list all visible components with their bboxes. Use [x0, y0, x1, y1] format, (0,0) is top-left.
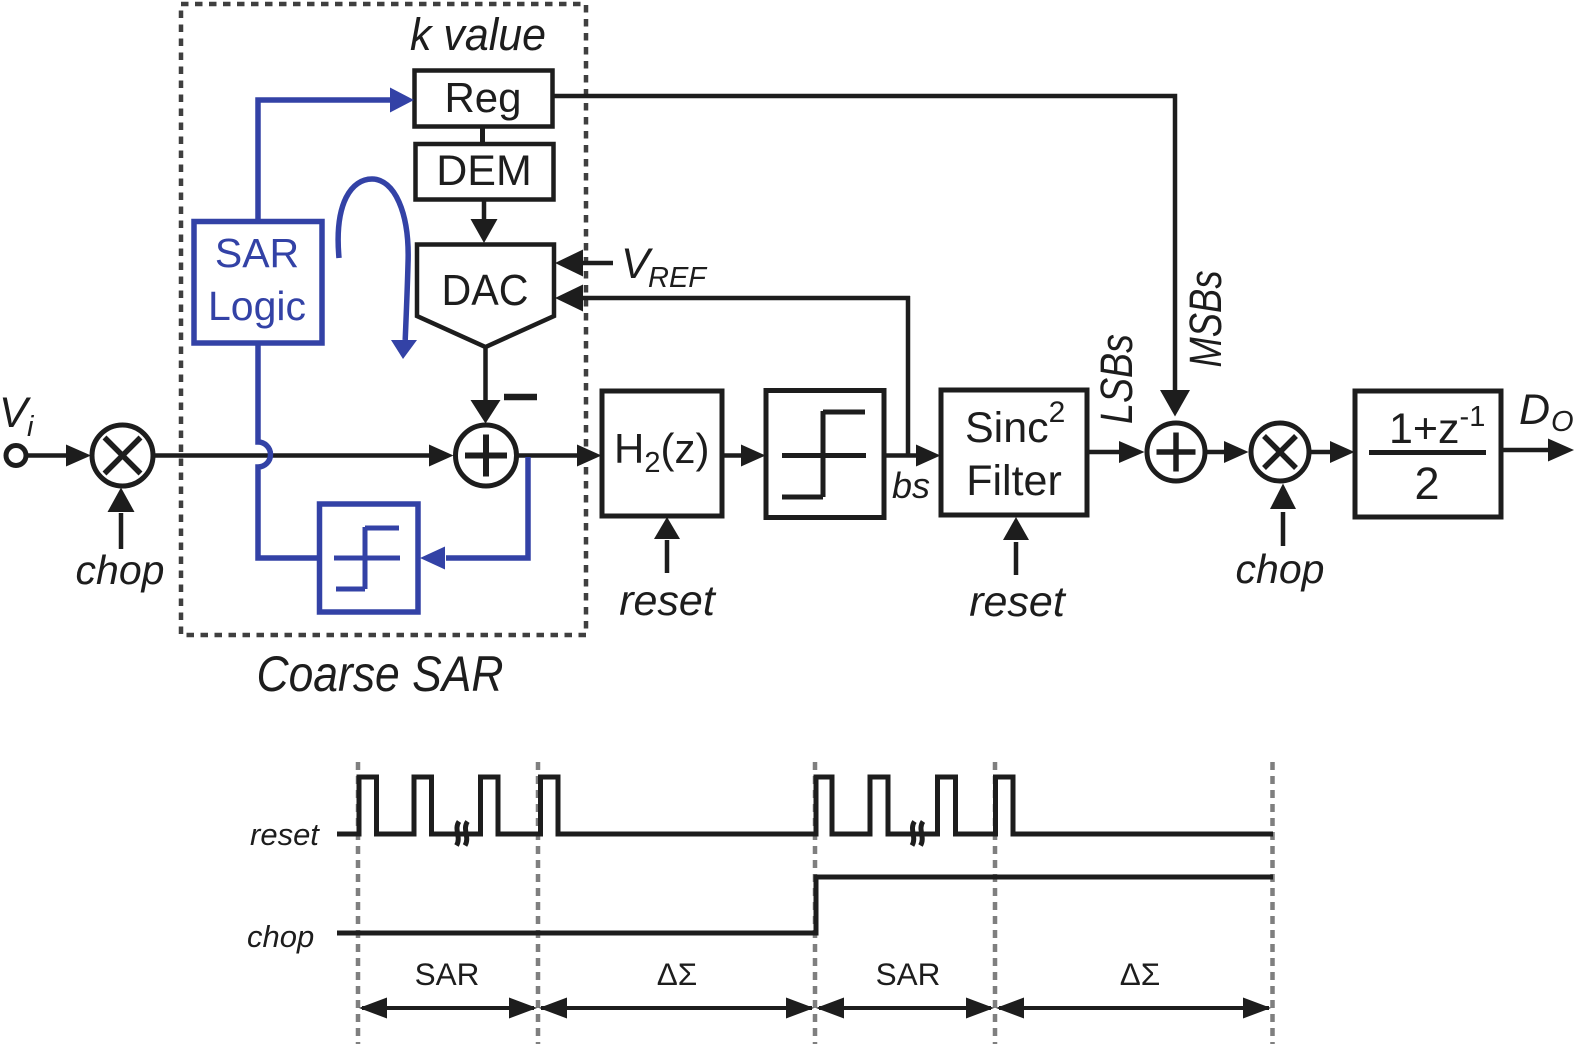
interval arrow SAR 2 [816, 998, 994, 1019]
output wire Do [1501, 439, 1574, 462]
multiplier chopper 1 [92, 425, 153, 486]
svg-text:D: D [1519, 386, 1550, 434]
chop input arrow 1 [108, 488, 135, 550]
waveform break squiggle 1 [457, 822, 468, 846]
wire bs feedback to DAC [555, 285, 910, 456]
summing junction 1 [456, 425, 517, 486]
blue feedback wire summer1 to comparator [420, 457, 528, 570]
block Sinc2 Filter [941, 390, 1087, 515]
dashed box Coarse SAR boundary [181, 4, 586, 635]
svg-text:Coarse SAR: Coarse SAR [257, 646, 504, 702]
svg-text:DAC: DAC [442, 266, 529, 315]
svg-text:chop: chop [76, 547, 165, 593]
svg-text:ΔΣ: ΔΣ [1120, 956, 1161, 992]
quantizer block [766, 391, 884, 518]
interval arrow SAR 1 [359, 998, 537, 1019]
svg-text:MSBs: MSBs [1180, 271, 1231, 368]
wire DEM to DAC [471, 199, 498, 243]
wire chopper2 to output block [1311, 441, 1355, 463]
svg-text:O: O [1551, 406, 1574, 438]
block H2(z) [602, 391, 722, 516]
block DAC [417, 245, 554, 348]
svg-text:REF: REF [648, 262, 708, 294]
svg-text:reset: reset [619, 577, 717, 625]
reset arrow 2 [1003, 517, 1029, 575]
svg-text:reset: reset [969, 578, 1067, 626]
svg-text:LSBs: LSBs [1091, 334, 1142, 424]
wire H2 to quantizer [722, 445, 766, 467]
timing dashed gridlines [358, 762, 1273, 1044]
blue wire SAR Logic to Reg [258, 88, 414, 222]
blue comparator block [320, 504, 419, 612]
svg-text:DEM: DEM [436, 147, 532, 195]
chop waveform [337, 877, 1273, 933]
label Do [1519, 386, 1574, 438]
svg-text:chop: chop [1236, 546, 1325, 592]
svg-text:reset: reset [250, 817, 320, 852]
svg-text:ΔΣ: ΔΣ [657, 956, 698, 992]
interval arrow DS 2 [996, 998, 1271, 1019]
node Vi label [0, 389, 35, 443]
wire Reg to DEM [480, 126, 485, 145]
svg-text:Logic: Logic [208, 283, 306, 329]
wire summer1 to H2 [517, 445, 602, 467]
wire DAC to summer 1 [471, 347, 501, 424]
blue wire SAR Logic down with hop to comparator [258, 343, 317, 558]
svg-text:Reg: Reg [444, 74, 521, 121]
wire input to chopper [28, 453, 69, 458]
svg-text:bs: bs [892, 465, 930, 506]
svg-text:Filter: Filter [966, 457, 1062, 505]
svg-text:SAR: SAR [415, 956, 480, 992]
wire quantizer to sinc with junction [884, 445, 941, 467]
multiplier chopper 2 [1251, 423, 1309, 481]
svg-text:2: 2 [1414, 458, 1439, 509]
svg-text:SAR: SAR [876, 956, 941, 992]
block Reg [415, 71, 553, 127]
wire sinc to summer 2 [1087, 441, 1145, 463]
wire chopper to summer [154, 445, 454, 467]
blue loop arrow [338, 179, 417, 359]
label VREF [621, 240, 708, 294]
svg-text:SAR: SAR [215, 230, 299, 276]
reset waveform [337, 777, 1273, 834]
input terminal circle [6, 446, 26, 466]
svg-text:H2(z): H2(z) [614, 425, 709, 479]
wire summer2 to chopper2 [1207, 441, 1249, 463]
block DEM [416, 144, 554, 200]
chop input arrow 2 [1270, 484, 1296, 547]
wire MSBs from Reg to summer 2 [553, 96, 1190, 417]
VREF input arrow [555, 250, 613, 277]
output block 1+z-1 over 2 [1355, 391, 1501, 517]
reset arrow 1 [654, 517, 680, 573]
interval arrow DS 1 [539, 998, 814, 1019]
summing junction 2 [1147, 423, 1205, 481]
minus sign at summer [504, 394, 537, 401]
block SAR Logic (blue) [194, 222, 322, 344]
svg-text:k value: k value [410, 9, 546, 60]
svg-text:chop: chop [247, 919, 314, 954]
waveform break squiggle 2 [912, 822, 923, 846]
